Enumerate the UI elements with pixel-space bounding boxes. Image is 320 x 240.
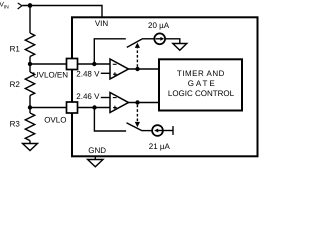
svg-text:21 µA: 21 µA xyxy=(149,142,171,151)
wire comp2 output xyxy=(129,102,160,104)
node VIN input terminal V_IN xyxy=(0,1,22,10)
node junction OVLO/switch xyxy=(92,105,96,109)
node comp2 output junction xyxy=(135,100,139,104)
control dashed arrow down xyxy=(136,105,138,122)
node junction OVLO xyxy=(28,105,32,109)
wire VIN rail top xyxy=(22,6,102,18)
terminal bar xyxy=(172,126,174,135)
switch S1 xyxy=(94,39,126,64)
svg-text:2.46 V: 2.46 V xyxy=(76,92,100,101)
wire R1 bottom lead xyxy=(29,57,31,65)
ground below R3 xyxy=(29,141,31,144)
node junction UVLO xyxy=(28,62,32,66)
svg-text:GATE: GATE xyxy=(188,79,217,88)
svg-text:GND: GND xyxy=(88,146,106,155)
control dashed arrow up xyxy=(136,48,138,67)
resistor R1 xyxy=(25,33,34,57)
svg-text:VIN: VIN xyxy=(95,19,109,28)
current source I2 21uA xyxy=(152,125,163,136)
wire comp1 output xyxy=(129,68,160,70)
wire R3 top lead xyxy=(29,108,31,114)
svg-text:R3: R3 xyxy=(10,119,21,128)
svg-text:R2: R2 xyxy=(10,80,21,89)
wire to ground xyxy=(165,39,180,44)
pin OVLO xyxy=(67,102,78,113)
wire to stub xyxy=(163,130,173,132)
node comp1 output junction xyxy=(135,67,139,71)
wire OVLO to comparator xyxy=(30,107,110,109)
switch S2 xyxy=(94,108,126,132)
svg-text:IN: IN xyxy=(4,5,9,11)
wire R1 top lead xyxy=(29,6,31,34)
wire UVLO to comparator xyxy=(30,63,110,65)
svg-text:20 µA: 20 µA xyxy=(148,21,170,30)
IC outline box xyxy=(72,17,258,156)
svg-text:OVLO: OVLO xyxy=(44,115,66,124)
svg-text:LOGIC CONTROL: LOGIC CONTROL xyxy=(168,89,235,98)
svg-text:2.48 V: 2.48 V xyxy=(76,70,100,79)
node junction UVLO/switch xyxy=(92,62,96,66)
svg-text:R1: R1 xyxy=(10,44,21,53)
node junction VIN/R1 xyxy=(28,3,33,8)
svg-text:TIMER AND: TIMER AND xyxy=(177,69,225,78)
resistor R3 xyxy=(25,113,34,141)
wire R2 bottom lead xyxy=(29,96,31,108)
resistor R2 xyxy=(25,72,34,96)
comparator U1 (UVLO) xyxy=(110,59,129,79)
block TIMER AND GATE LOGIC CONTROL xyxy=(159,59,242,110)
current source I1 20uA xyxy=(154,33,165,44)
pin UVLO/EN xyxy=(67,59,78,70)
comparator U2 (OVLO) xyxy=(110,93,129,113)
wire R2 top lead xyxy=(29,64,31,72)
svg-text:UVLO/EN: UVLO/EN xyxy=(33,70,68,79)
ground (GND pin) xyxy=(88,160,103,167)
ground (20uA source) xyxy=(173,44,187,51)
